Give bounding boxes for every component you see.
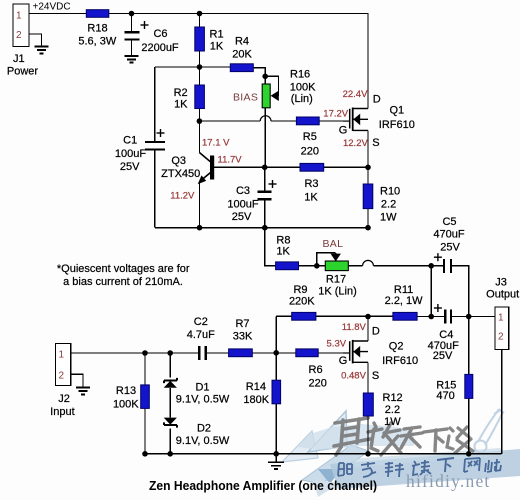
resistor R1 [195, 27, 205, 51]
svg-text:2: 2 [16, 30, 22, 41]
svg-text:Q2: Q2 [389, 340, 404, 352]
wire R16 pot terminals [264, 76, 266, 167]
wire R17 wiper loop [317, 253, 336, 266]
resistor R9 [292, 312, 316, 320]
resistor R15 [465, 374, 473, 398]
wire C6 to ground [131, 41, 133, 56]
svg-text:D2: D2 [197, 422, 211, 434]
svg-text:1: 1 [498, 313, 504, 324]
svg-text:100K: 100K [290, 82, 316, 94]
svg-text:11.7V: 11.7V [218, 154, 243, 165]
svg-text:11.2V: 11.2V [170, 190, 195, 201]
capacitor C5 [444, 259, 451, 273]
svg-text:220K: 220K [289, 296, 315, 308]
wire R2 branch [198, 67, 200, 153]
junction R12 bottom rail [365, 451, 371, 457]
svg-text:R13: R13 [116, 385, 136, 397]
svg-text:hifidiy.net: hifidiy.net [406, 471, 490, 491]
svg-text:1K: 1K [304, 192, 318, 204]
svg-text:2.2: 2.2 [381, 199, 396, 211]
capacitor C4 [445, 310, 451, 324]
junction R1-R2 node [197, 64, 203, 70]
wire drop to R8 [265, 228, 276, 266]
svg-text:1: 1 [59, 350, 65, 361]
junction Q3 base / R16-R3-C3 node [262, 165, 268, 171]
wire J2 pin2 to ground [71, 374, 83, 387]
svg-text:100uF: 100uF [227, 199, 258, 211]
wire Q3 emitter [199, 181, 201, 228]
resistor R12 [363, 393, 373, 416]
svg-text:G: G [339, 124, 348, 136]
svg-text:5.3V: 5.3V [327, 339, 347, 350]
svg-text:R2: R2 [174, 87, 188, 99]
resistor R10 [363, 184, 373, 209]
wire node row y67 [155, 67, 265, 76]
svg-text:D: D [372, 326, 380, 338]
boat sail [308, 411, 347, 452]
junction D1 top node [167, 350, 173, 356]
svg-text:1K: 1K [276, 246, 290, 258]
wire row y316.5 [276, 315, 495, 317]
svg-text:S: S [372, 370, 379, 382]
resistor R11 [393, 312, 417, 320]
wire C6 branch [131, 14, 133, 32]
junction C4-C5-R15-J3 node [466, 314, 472, 320]
svg-text:180K: 180K [243, 394, 269, 406]
svg-text:IRF610: IRF610 [382, 355, 418, 367]
svg-text:J2: J2 [58, 393, 70, 405]
watermark band [330, 449, 520, 489]
gray glyph 谈 [447, 427, 473, 453]
svg-text:Q1: Q1 [390, 105, 405, 117]
wire R8 to R17 [299, 265, 326, 267]
R16 wiper arrow [271, 91, 279, 101]
svg-text:ZTX450: ZTX450 [161, 168, 200, 180]
watermark [0, 0, 1, 1]
junction R14-ground rail [273, 451, 279, 457]
svg-text:C2: C2 [194, 316, 208, 328]
svg-text:25V: 25V [232, 211, 252, 223]
gray glyph 下 [424, 429, 447, 451]
svg-text:R4: R4 [235, 36, 249, 48]
svg-text:17.1 V: 17.1 V [202, 138, 230, 149]
svg-text:(Lin): (Lin) [291, 93, 313, 105]
svg-text:Output: Output [486, 288, 519, 300]
svg-text:1K: 1K [210, 40, 224, 52]
svg-text:11.8V: 11.8V [342, 322, 367, 333]
junction R17-C5 node [428, 263, 434, 269]
svg-text:1: 1 [16, 11, 22, 22]
gray glyph 耳 [334, 418, 370, 455]
svg-text:470uF: 470uF [433, 228, 464, 240]
wire R9 left leg [275, 316, 277, 353]
mosfet Q2 [343, 340, 368, 364]
svg-text:2: 2 [59, 370, 65, 381]
junction R8-R17 wiper node [314, 263, 320, 269]
svg-text:C5: C5 [442, 216, 456, 228]
svg-text:17.2V: 17.2V [323, 109, 348, 120]
resistor R13 [141, 385, 150, 409]
junction Q1 source / R3-R10 node [365, 165, 371, 171]
svg-text:20K: 20K [232, 49, 252, 61]
capacitor C3 [258, 192, 272, 200]
svg-text:25V: 25V [433, 350, 453, 362]
mosfet Q1 [343, 108, 368, 132]
ground below J2 [76, 388, 90, 395]
band glyph 艺 [361, 462, 376, 477]
quill logo circle [475, 409, 505, 453]
svg-text:2: 2 [498, 331, 504, 342]
junction R1 top rail [197, 11, 203, 17]
junction R15 bottom rail [466, 451, 472, 457]
ground below C6 [125, 56, 139, 63]
wire R16 wiper loop [265, 76, 278, 96]
svg-text:R10: R10 [380, 185, 400, 197]
resistor R6 [296, 349, 318, 357]
wire C5 right to junction [452, 266, 469, 317]
svg-text:220: 220 [301, 146, 319, 158]
svg-text:Input: Input [50, 406, 74, 418]
svg-text:*Quiescent voltages are for: *Quiescent voltages are for [57, 263, 190, 275]
svg-text:25V: 25V [120, 161, 140, 173]
wire J3 pin2 drop [501, 350, 503, 454]
junction C4-R11 node [428, 314, 434, 320]
svg-text:R1: R1 [210, 28, 224, 40]
potentiometer R17 [325, 261, 348, 271]
junction R11-Q2 drain node [365, 314, 371, 320]
svg-text:100uF: 100uF [115, 148, 146, 160]
svg-text:1W: 1W [384, 416, 401, 428]
ground below J1 [35, 47, 49, 54]
band glyph 旗 [412, 460, 431, 475]
capacitor C6 [124, 32, 139, 39]
connector J1 [13, 4, 29, 47]
wire C3 branch [264, 167, 266, 227]
wire bottom rail [145, 453, 502, 455]
junction J2-R13 node [142, 350, 148, 356]
svg-text:2.2, 1W: 2.2, 1W [385, 295, 424, 307]
svg-text:Q3: Q3 [171, 155, 186, 167]
svg-text:9.1V, 0.5W: 9.1V, 0.5W [176, 393, 230, 405]
boat dark triangle [318, 469, 341, 484]
svg-text:S: S [372, 137, 379, 149]
svg-text:9.1V, 0.5W: 9.1V, 0.5W [176, 435, 230, 447]
wire top rail [29, 14, 368, 109]
band glyph 胆 [338, 463, 352, 476]
svg-text:R17: R17 [326, 273, 346, 285]
svg-text:C3: C3 [236, 185, 250, 197]
svg-text:C6: C6 [153, 28, 167, 40]
connector J2 [55, 343, 70, 385]
wire R13 branch [144, 353, 146, 454]
svg-text:1K (Lin): 1K (Lin) [318, 286, 357, 298]
boat lower fin [313, 480, 340, 497]
wire R14 branch [275, 353, 277, 454]
wire C1 branch [154, 67, 156, 228]
svg-text:J3: J3 [495, 276, 507, 288]
resistor R14 [272, 380, 281, 404]
gray glyph 放 [368, 423, 401, 455]
svg-text:2200uF: 2200uF [141, 42, 179, 54]
svg-text:33K: 33K [233, 330, 253, 342]
svg-text:0.48V: 0.48V [341, 370, 366, 381]
svg-text:BAL: BAL [323, 238, 344, 250]
junction Q3 emitter rail [197, 225, 203, 231]
resistor R4 [230, 64, 253, 72]
wire R15 branch [468, 317, 470, 454]
wire Q2 drain [367, 317, 369, 342]
boat hull swoosh [302, 445, 369, 484]
wire bottom-mid rail y227.7 [155, 227, 368, 229]
svg-text:R7: R7 [235, 318, 249, 330]
svg-text:4.7uF: 4.7uF [187, 329, 215, 341]
capacitor C1 [145, 142, 165, 150]
wire input row y352.8 [71, 352, 350, 354]
wire C5 left to C4 left [430, 266, 432, 317]
svg-text:R3: R3 [304, 178, 318, 190]
potentiometer R16 [262, 84, 270, 108]
gray glyph 天 [401, 427, 422, 448]
boat left wing [282, 431, 318, 462]
resistor R7 [229, 349, 253, 357]
band glyph 轩 [385, 462, 404, 477]
band glyph 站 [485, 459, 501, 472]
svg-text:R18: R18 [87, 22, 107, 34]
svg-text:D: D [373, 94, 381, 106]
junction D2 bottom rail [167, 451, 173, 457]
svg-text:12.2V: 12.2V [343, 138, 368, 149]
svg-text:R6: R6 [309, 364, 323, 376]
junction C3 bottom rail [262, 225, 268, 231]
wire hop arcs [260, 116, 373, 266]
watermark upper wave [298, 424, 414, 450]
resistor R18 [86, 10, 109, 18]
resistor R3 [300, 163, 324, 171]
wire Q1 drain/source rail [367, 130, 369, 227]
svg-text:C1: C1 [123, 135, 137, 147]
junction R4-R16 wiper node [262, 74, 268, 80]
wire D1 D2 branch [169, 353, 171, 454]
connector J3 [495, 307, 509, 350]
wire R17 to C5 with hop [348, 265, 443, 267]
R17 wiper arrow [331, 254, 341, 262]
junction R10 bottom rail [365, 225, 371, 231]
junction input node R7-R6-R9-R14 [273, 350, 279, 356]
junction R13 bottom rail [142, 451, 148, 457]
band glyph 下 [437, 458, 454, 472]
svg-text:2.2: 2.2 [385, 404, 400, 416]
svg-text:R14: R14 [246, 381, 266, 393]
svg-text:100K: 100K [113, 398, 139, 410]
resistor R8 [276, 262, 299, 270]
resistor R2 [195, 85, 205, 109]
wire base row y167 [214, 166, 368, 168]
svg-text:+24VDC: +24VDC [33, 2, 71, 13]
band glyph 网 [464, 458, 480, 472]
wire ground stub G4 [275, 454, 277, 462]
svg-text:R16: R16 [290, 68, 310, 80]
zener diode D2 [164, 418, 177, 428]
svg-text:220: 220 [309, 377, 327, 389]
svg-text:R8: R8 [276, 235, 290, 247]
svg-text:1W: 1W [380, 212, 397, 224]
svg-text:1K: 1K [174, 99, 188, 111]
capacitor C2 [199, 346, 205, 360]
svg-text:25V: 25V [440, 241, 460, 253]
junction C6 top rail [129, 11, 135, 17]
svg-text:J1: J1 [13, 53, 25, 65]
ground G4 bottom [268, 462, 284, 469]
svg-text:IRF610: IRF610 [379, 119, 415, 131]
svg-text:5.6, 3W: 5.6, 3W [78, 35, 117, 47]
resistor R5 [296, 117, 319, 125]
wire J1 pin2 to ground [29, 34, 42, 46]
zener diode D1 [164, 378, 177, 388]
wire Q2 source to R12 [367, 362, 369, 454]
wire R5 row with hop [199, 120, 349, 122]
svg-text:Zen Headphone Amplifier (one c: Zen Headphone Amplifier (one channel) [149, 478, 377, 493]
svg-text:470: 470 [436, 390, 454, 402]
svg-text:G: G [339, 355, 348, 367]
svg-text:BIAS: BIAS [233, 91, 258, 103]
transistor Q3 [198, 153, 215, 185]
junction R2-Q3 collector / R5 node [197, 118, 203, 124]
svg-text:22.4V: 22.4V [343, 89, 368, 100]
svg-text:Power: Power [7, 66, 39, 78]
svg-text:a bias current of 210mA.: a bias current of 210mA. [63, 276, 183, 288]
svg-text:R12: R12 [383, 392, 403, 404]
svg-text:D1: D1 [195, 381, 209, 393]
svg-text:R9: R9 [293, 284, 307, 296]
wire R1 branch [199, 14, 201, 68]
svg-text:R5: R5 [303, 131, 317, 143]
